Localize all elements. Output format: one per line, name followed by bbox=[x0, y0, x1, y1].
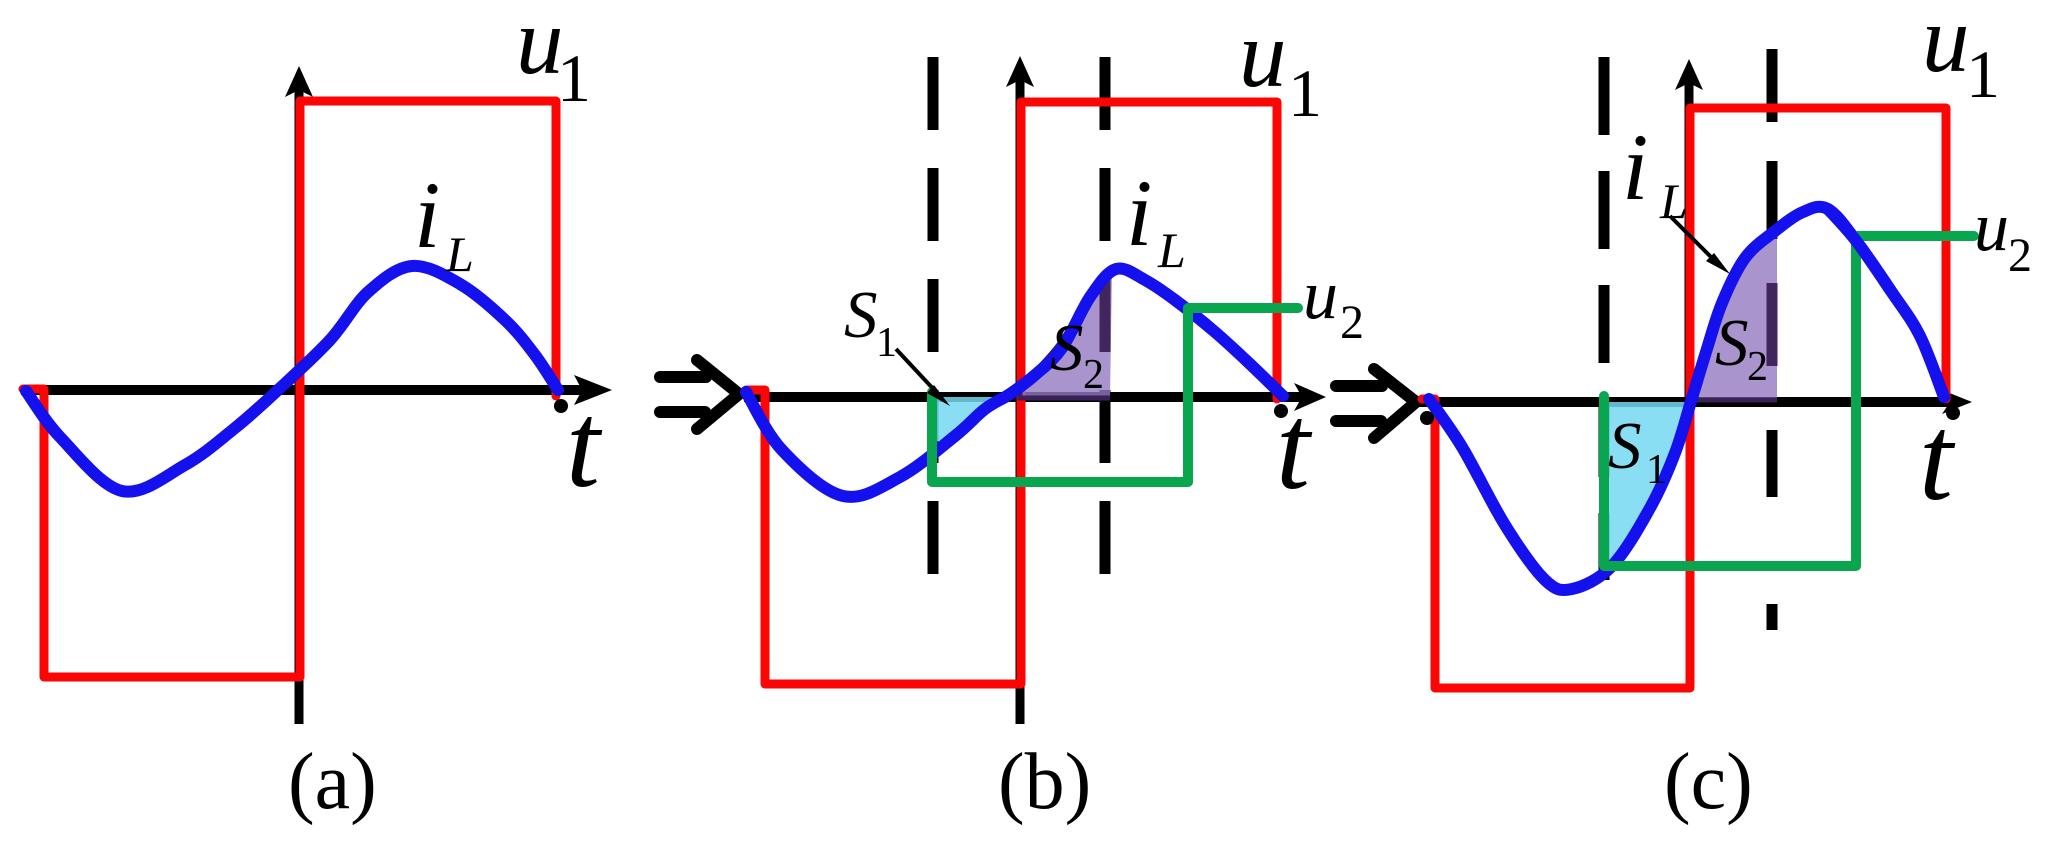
panel (b) dashed line right bbox=[1100, 57, 1111, 578]
panel (b) dash fragment through S2 bbox=[1100, 276, 1111, 352]
implication arrow 1 bbox=[660, 371, 706, 383]
panel (b) area S2 outline bbox=[1020, 272, 1112, 398]
svg-text:u: u bbox=[1239, 1, 1287, 107]
svg-text:1: 1 bbox=[1966, 36, 2000, 112]
panel (c) dash fragment through S2 bbox=[1767, 234, 1778, 366]
panel (c) area S2 fill bbox=[1693, 232, 1777, 400]
panel (c) time marker dot right bbox=[1946, 406, 1960, 420]
panel (c) time axis t bbox=[1417, 397, 1952, 407]
panel (b) voltage u2 square wave bbox=[932, 308, 1298, 482]
svg-text:2: 2 bbox=[1083, 352, 1104, 398]
svg-text:(a): (a) bbox=[288, 738, 377, 826]
svg-text:u: u bbox=[1974, 189, 2009, 266]
panel (a) voltage u1 square wave bbox=[23, 101, 556, 677]
svg-text:S: S bbox=[844, 278, 878, 352]
panel (a) time marker dot bbox=[554, 399, 568, 413]
panel (a) vertical axis bbox=[295, 88, 304, 724]
svg-text:(c): (c) bbox=[1664, 738, 1753, 826]
implication arrow 2 bbox=[1336, 380, 1382, 392]
svg-text:2: 2 bbox=[1747, 344, 1768, 390]
panel (c) inductor current iL curve bbox=[1429, 207, 1944, 590]
svg-text:i: i bbox=[1622, 114, 1648, 220]
panel (a) time axis t bbox=[21, 385, 584, 395]
svg-text:i: i bbox=[1126, 160, 1152, 266]
panel (c) area S1 fill bbox=[1604, 402, 1688, 572]
panel (c) voltage u1 square wave bbox=[1422, 108, 1946, 688]
panel (c) vertical axis bbox=[1685, 81, 1694, 400]
panel (c) time marker dot left bbox=[1420, 411, 1434, 425]
svg-text:L: L bbox=[1157, 222, 1186, 278]
panel (b) vertical axis bbox=[1016, 78, 1025, 724]
panel (c) area S2 outline bbox=[1693, 232, 1777, 400]
svg-text:2: 2 bbox=[1340, 296, 1364, 349]
svg-text:u: u bbox=[1922, 0, 1970, 92]
panel (a) inductor current iL curve bbox=[26, 266, 558, 492]
panel (b) inductor current iL curve bbox=[746, 268, 1283, 496]
panel (b) area S1 fill bbox=[932, 397, 1005, 444]
panel (b) time marker dot bbox=[1274, 404, 1288, 418]
panel (c) iL curve overlay at u2 crossing bbox=[1828, 209, 1891, 291]
svg-text:1: 1 bbox=[1288, 55, 1322, 131]
svg-text:S: S bbox=[1050, 311, 1084, 385]
svg-text:t: t bbox=[1919, 391, 1956, 526]
svg-text:t: t bbox=[1276, 380, 1313, 515]
panel (b) area S2 fill bbox=[1020, 272, 1112, 398]
panel (b) time axis t bbox=[744, 392, 1304, 402]
panel (c) iL pointer arrow bbox=[1670, 216, 1716, 262]
svg-text:S: S bbox=[1715, 306, 1749, 380]
svg-text:1: 1 bbox=[1646, 447, 1667, 493]
svg-text:1: 1 bbox=[557, 40, 591, 116]
svg-text:u: u bbox=[1303, 257, 1338, 334]
svg-text:S: S bbox=[1608, 409, 1642, 483]
svg-text:(b): (b) bbox=[998, 738, 1091, 826]
panel (b) voltage u1 square wave bbox=[746, 102, 1277, 684]
panel (c) voltage u2 square wave bbox=[1604, 236, 1974, 566]
svg-text:1: 1 bbox=[876, 320, 897, 366]
svg-text:L: L bbox=[445, 226, 474, 282]
panel (b) dashed line left bbox=[928, 57, 939, 578]
panel (c) dashed line left bbox=[1599, 57, 1610, 580]
svg-text:t: t bbox=[566, 378, 603, 513]
svg-text:i: i bbox=[414, 162, 440, 268]
panel (b) S1 pointer arrow bbox=[896, 349, 938, 394]
svg-text:2: 2 bbox=[2008, 229, 2032, 282]
panel (c) dashed line right bbox=[1767, 49, 1778, 630]
